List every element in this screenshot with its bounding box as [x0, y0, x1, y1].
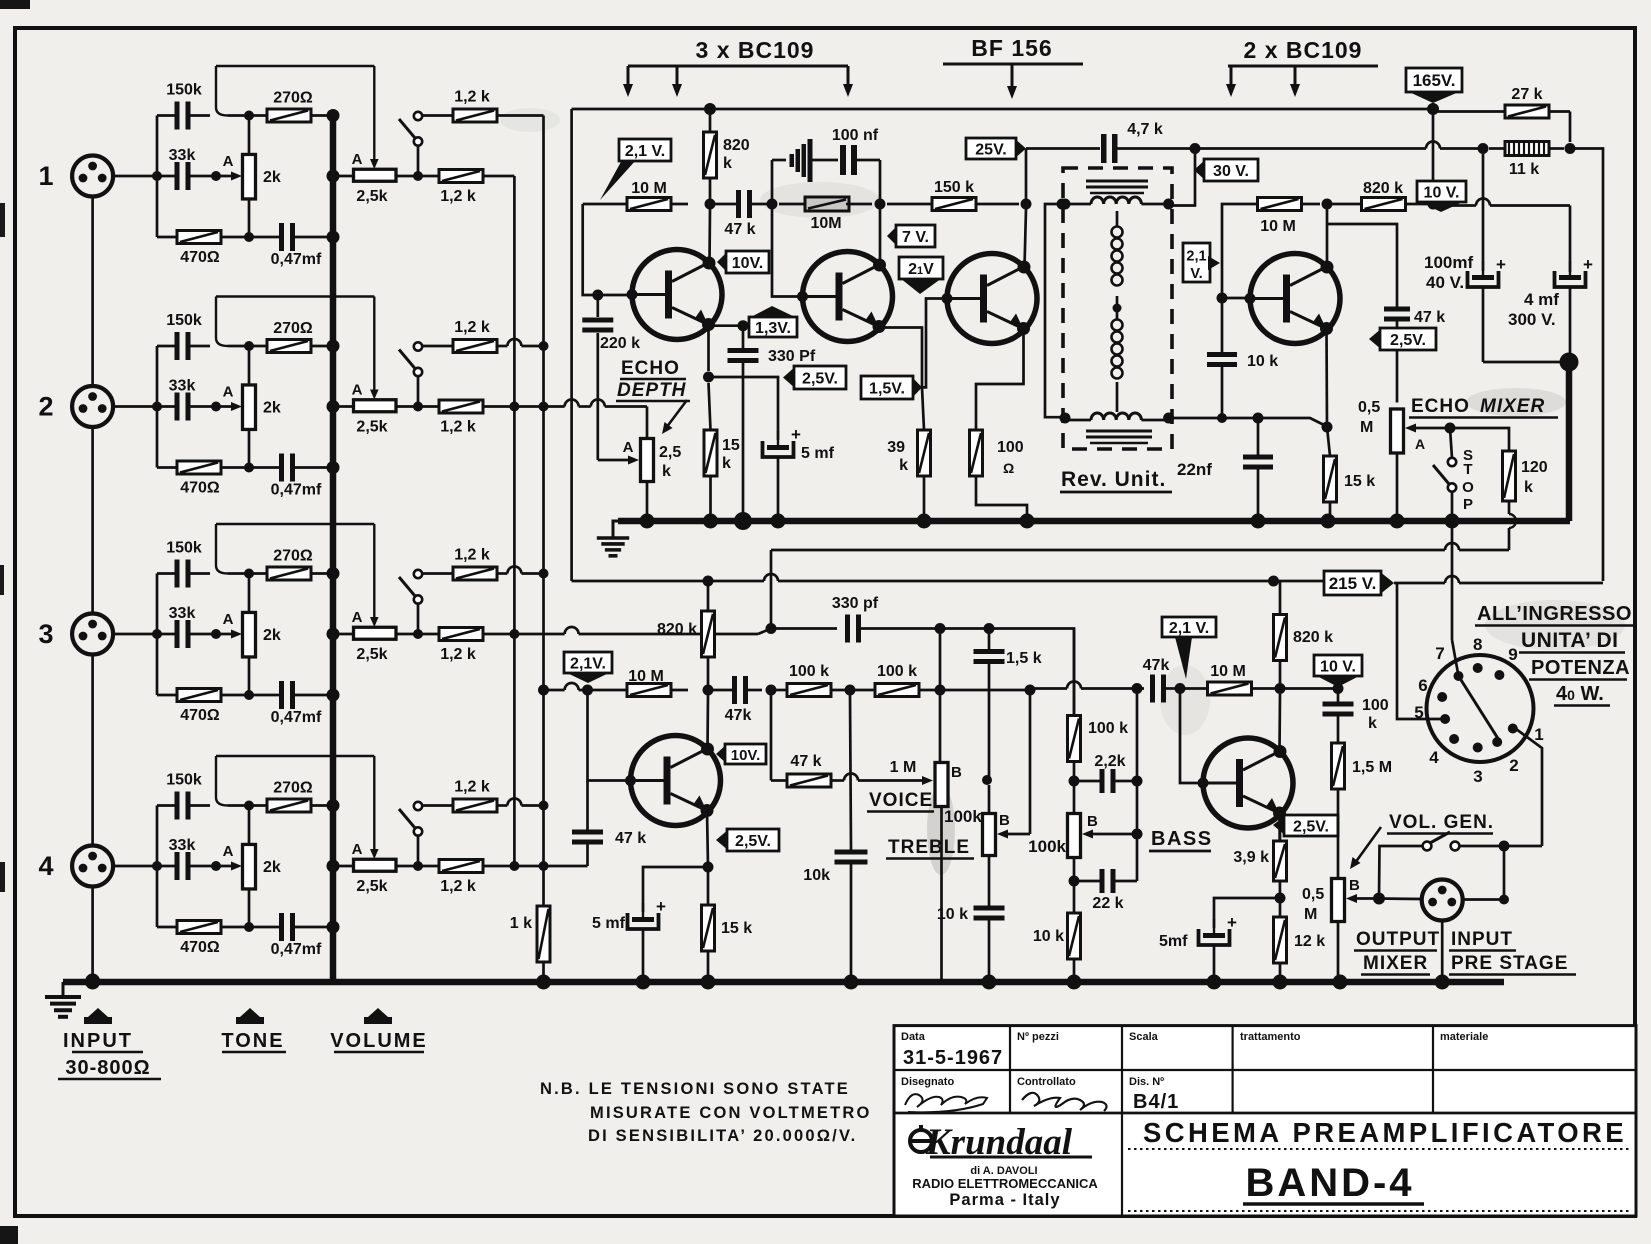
svg-text:10 M: 10 M	[631, 180, 667, 197]
wire caps common	[1483, 361, 1563, 364]
callout 2,1V tone	[564, 652, 612, 673]
svg-text:820 k: 820 k	[1293, 629, 1333, 646]
capacitor 22nf	[1243, 455, 1273, 460]
reverb unit dashed box	[1063, 168, 1172, 449]
svg-text:47 k: 47 k	[724, 221, 755, 238]
potentiometer 2k channel 3	[243, 612, 256, 657]
svg-text:1,2 k: 1,2 k	[454, 89, 490, 106]
svg-text:A: A	[223, 843, 234, 860]
svg-text:Nº pezzi: Nº pezzi	[1017, 1031, 1059, 1043]
svg-text:ECHO: ECHO	[1411, 396, 1470, 417]
callout 2,5V echo mixer	[1369, 328, 1382, 350]
svg-text:470Ω: 470Ω	[180, 249, 220, 266]
wire ch4 lower row	[483, 865, 544, 868]
svg-text:4 mf: 4 mf	[1524, 290, 1559, 309]
svg-text:BAND-4: BAND-4	[1245, 1161, 1414, 1205]
wire ch3 lower row to tone caps	[483, 633, 565, 636]
capacitor 33k channel 2	[175, 393, 180, 421]
feedback bracket channel 1	[216, 65, 374, 67]
svg-text:9: 9	[1508, 645, 1517, 664]
socket pin 1	[1508, 724, 1518, 734]
svg-text:OUTPUT: OUTPUT	[1356, 929, 1440, 950]
svg-text:820: 820	[723, 137, 750, 154]
stop switch	[1448, 458, 1456, 466]
svg-text:P: P	[1463, 496, 1473, 513]
resistor 1,2k lower channel 2	[439, 400, 483, 413]
svg-text:10 k: 10 k	[937, 906, 968, 923]
svg-text:47 k: 47 k	[1414, 309, 1445, 326]
wire J3 to node	[114, 633, 158, 636]
node channel 3 switch junction	[413, 629, 423, 639]
wiper arrow 2k channel 2	[216, 405, 233, 408]
pointer VOLUME	[364, 1008, 392, 1024]
svg-text:B: B	[1349, 877, 1360, 894]
node 11k right	[1565, 143, 1576, 154]
socket pin 6	[1437, 692, 1447, 702]
svg-text:6: 6	[1418, 676, 1427, 695]
resistor 1,2k lower channel 4	[439, 860, 483, 873]
reverb spring coil lower	[1112, 320, 1123, 331]
node channel 1 2k wiper	[211, 171, 221, 181]
wire J2 to node	[114, 405, 158, 408]
switch channel 3	[414, 570, 422, 578]
svg-text:VOL. GEN.: VOL. GEN.	[1389, 812, 1494, 833]
krundaal logo mark	[910, 1130, 932, 1152]
svg-text:N.B. LE TENSIONI SONO STAT: N.B. LE TENSIONI SONO STATE	[540, 1080, 850, 1098]
transformer core bottom	[1086, 430, 1152, 433]
capacitor 1,5k	[974, 649, 1005, 654]
wire Q1 base feed	[583, 204, 632, 295]
wire Q2 collector up	[879, 209, 882, 265]
svg-text:k: k	[662, 463, 671, 480]
capacitor 5mf tone	[643, 867, 708, 912]
wire Q5 collector up	[706, 695, 709, 749]
wire Q2 emitter run	[879, 328, 922, 388]
svg-text:Ω: Ω	[1003, 460, 1014, 476]
callout 1,3V	[749, 317, 797, 337]
node T1 collector row	[705, 199, 716, 210]
svg-text:1,5V.: 1,5V.	[869, 381, 905, 398]
svg-text:1 M: 1 M	[890, 759, 917, 776]
capacitor 47k tone base	[572, 830, 603, 835]
potentiometer 2,5k channel 3	[354, 627, 397, 639]
wire ch3 upper row with hop	[498, 572, 508, 575]
dotted rule 1	[1128, 1148, 1632, 1150]
row bass 47k	[1030, 687, 1067, 690]
svg-text:220 k: 220 k	[600, 335, 640, 352]
resistor 1,2k upper channel 2	[453, 340, 497, 353]
capacitor 0,47mf channel 2	[279, 454, 284, 482]
svg-text:TONE: TONE	[221, 1030, 284, 1052]
node bass divider 1	[1069, 776, 1080, 787]
svg-text:5 mf: 5 mf	[592, 915, 626, 932]
title block separators	[894, 1069, 1636, 1071]
svg-text:30 V.: 30 V.	[1213, 163, 1249, 180]
svg-text:Scala: Scala	[1129, 1031, 1159, 1043]
resistor 1,2k upper channel 3	[453, 567, 497, 580]
wire ch2 upper row with hop	[498, 345, 508, 348]
resistor 470Ω channel 2	[177, 461, 221, 474]
wire Q3 collector to 4,7k row	[1025, 149, 1028, 205]
svg-text:33k: 33k	[169, 837, 196, 854]
dotted rule 2	[1128, 1210, 1632, 1212]
node channel 2 2k wiper	[211, 402, 221, 412]
resistor 120k	[1503, 451, 1516, 501]
svg-text:M: M	[1360, 419, 1373, 436]
node rev top-left	[1060, 199, 1071, 210]
svg-text:22 k: 22 k	[1092, 895, 1123, 912]
svg-text:2k: 2k	[263, 627, 281, 644]
socket pin 5	[1440, 714, 1450, 724]
svg-text:1,5 k: 1,5 k	[1006, 650, 1042, 667]
capacitor 4,7k	[1101, 134, 1107, 163]
capacitor 10k treble	[974, 906, 1005, 911]
capacitor 150k channel 3	[175, 560, 180, 588]
wire Q4 emitter down	[1325, 330, 1328, 428]
supply top line	[572, 108, 1433, 111]
svg-text:100k: 100k	[944, 807, 982, 826]
capacitor 33k channel 3	[175, 620, 180, 648]
resistor 3,9k bass	[1274, 841, 1287, 881]
potentiometer 100k treble	[983, 814, 996, 856]
potentiometer 2k channel 1	[243, 154, 256, 199]
svg-text:1,2 k: 1,2 k	[454, 319, 490, 336]
svg-text:11 k: 11 k	[1509, 161, 1539, 178]
node rev bottom-left	[1060, 413, 1071, 424]
wire rev primary loop	[1045, 204, 1065, 417]
svg-text:470Ω: 470Ω	[180, 707, 220, 724]
callout 2,1V bass	[1162, 617, 1216, 637]
feedback bracket channel 4	[216, 755, 374, 757]
capacitor 0,47mf channel 3	[279, 681, 284, 709]
wire ch4 upper row with hop	[498, 804, 508, 807]
svg-text:10 V.: 10 V.	[1320, 659, 1356, 676]
tone input row	[544, 689, 565, 692]
svg-text:BASS: BASS	[1151, 828, 1213, 850]
resistor 1,2k lower channel 3	[439, 628, 483, 641]
svg-text:5 mf: 5 mf	[801, 445, 835, 462]
node channel 3 2k wiper	[211, 629, 221, 639]
svg-text:2,1V.: 2,1V.	[570, 656, 606, 673]
svg-text:2,1 V.: 2,1 V.	[1169, 620, 1209, 637]
wiper arrow 2k channel 1	[216, 175, 233, 178]
capacitor 150k channel 1	[175, 102, 180, 130]
reverb spring coil upper	[1112, 227, 1123, 238]
svg-text:10 k: 10 k	[1247, 353, 1278, 370]
capacitor 100k bass out	[1323, 702, 1354, 707]
wiper arrow 2k channel 3	[216, 633, 233, 636]
wiper treble	[997, 830, 1008, 839]
XLR input connector J2	[72, 386, 113, 427]
svg-text:VOLUME: VOLUME	[330, 1030, 428, 1052]
svg-text:2: 2	[1509, 756, 1518, 775]
wire J1 to node	[114, 175, 158, 178]
node 100nf right	[875, 199, 886, 210]
wire Q2 base feed	[772, 209, 803, 297]
svg-text:47k: 47k	[1143, 657, 1170, 674]
switch channel 2	[414, 342, 422, 350]
wire 10M2 left stub	[779, 203, 805, 206]
resistor 100k bass top	[1068, 716, 1081, 762]
svg-text:SCHEMA PREAMPLIFICATORE: SCHEMA PREAMPLIFICATORE	[1143, 1117, 1627, 1148]
svg-text:33k: 33k	[169, 605, 196, 622]
potentiometer 2,5k channel 2	[354, 400, 397, 412]
215V supply line	[572, 580, 764, 583]
svg-text:100: 100	[997, 439, 1024, 456]
svg-text:3: 3	[1473, 767, 1482, 786]
wire bass chain right	[1136, 689, 1139, 882]
resistor 820k echo mixer	[1362, 198, 1406, 211]
svg-text:1,2 k: 1,2 k	[440, 878, 476, 895]
svg-text:330 Pf: 330 Pf	[768, 348, 816, 365]
node Q4 collector row	[1322, 199, 1333, 210]
svg-text:27 k: 27 k	[1511, 86, 1542, 103]
node T3 collector row	[1021, 199, 1032, 210]
node channel 4 switch junction	[413, 861, 423, 871]
svg-text:Disegnato: Disegnato	[901, 1076, 954, 1088]
capacitor 33k channel 4	[175, 852, 180, 880]
arrow BF156	[1011, 64, 1014, 88]
main ground rail	[63, 979, 1504, 986]
svg-text:3 x BC109: 3 x BC109	[696, 37, 815, 63]
svg-text:trattamento: trattamento	[1240, 1031, 1301, 1043]
svg-text:120: 120	[1521, 459, 1548, 476]
wire Q1 emitter down	[707, 329, 710, 371]
callout 2,5V echo	[783, 366, 796, 389]
svg-text:100mf: 100mf	[1424, 253, 1473, 272]
wire 270 left stub channel 1	[249, 114, 267, 117]
node channel 3 470-0.47 junction	[244, 690, 254, 700]
switch channel 1	[414, 112, 422, 120]
capacitor 5mf bass	[1214, 898, 1280, 928]
wire 11k to right drop	[1570, 149, 1603, 582]
resistor 1,2k upper channel 4	[453, 799, 497, 812]
resistor 820k echo T1 load	[704, 132, 717, 178]
vol gen switch right wire	[1459, 845, 1542, 848]
wire Q1 emitter to 5mf	[709, 377, 779, 440]
resistor 820k tone	[702, 611, 715, 657]
wire to XLR output	[1503, 846, 1506, 900]
svg-text:4: 4	[38, 851, 53, 881]
node 47k tone out	[766, 685, 777, 696]
svg-text:1 k: 1 k	[510, 915, 532, 932]
potentiometer 1M voice	[935, 763, 948, 807]
socket internal link	[1459, 676, 1499, 739]
resistor 820k bass	[1274, 615, 1287, 661]
wire Q6 collector up	[1278, 694, 1281, 752]
capacitor 10k tone	[835, 850, 868, 855]
XLR input connector J1	[72, 156, 113, 197]
node channel 4 470-0.47 junction	[244, 922, 254, 932]
svg-text:300 V.: 300 V.	[1508, 310, 1556, 329]
power socket circle	[1427, 655, 1534, 762]
svg-text:10M: 10M	[810, 215, 841, 232]
svg-text:1: 1	[38, 161, 53, 191]
capacitor 33k channel 1	[175, 162, 180, 190]
wiper arrow 2k channel 4	[216, 865, 233, 868]
svg-text:2,5: 2,5	[659, 444, 681, 461]
wire voice top	[939, 629, 942, 691]
svg-text:INPUT: INPUT	[1451, 929, 1513, 950]
ground symbol echo rail	[613, 521, 618, 537]
svg-text:A: A	[352, 841, 363, 858]
wire rev return to emitter	[1169, 418, 1328, 427]
wire Q5 emitter down	[707, 811, 708, 868]
svg-text:A: A	[352, 382, 363, 399]
wire stop down to socket pin7	[1451, 521, 1454, 640]
callout 10V echo mixer	[1417, 181, 1466, 202]
svg-text:2,1: 2,1	[1186, 249, 1206, 265]
svg-text:820 k: 820 k	[657, 621, 697, 638]
potentiometer 2k channel 4	[243, 844, 256, 889]
svg-text:25V.: 25V.	[975, 142, 1006, 159]
transistor Q3 BF156	[947, 254, 1037, 344]
title block frame	[894, 1026, 1636, 1216]
row 100k 100k	[771, 689, 787, 692]
callout 7V	[887, 225, 898, 247]
svg-text:150k: 150k	[166, 540, 202, 557]
svg-text:15 k: 15 k	[1344, 473, 1375, 490]
resistor 15k echo	[704, 430, 717, 476]
svg-text:O: O	[1462, 479, 1474, 496]
svg-text:47 k: 47 k	[790, 753, 821, 770]
resistor 1k	[537, 906, 550, 962]
svg-text:5: 5	[1414, 703, 1423, 722]
echo-send bus vertical x=543	[542, 116, 545, 907]
svg-text:47k: 47k	[725, 707, 752, 724]
transistor Q2 BC109	[803, 252, 893, 342]
svg-text:8: 8	[1473, 635, 1482, 654]
resistor 270Ω channel 3	[267, 567, 311, 580]
wire Q3 base feed	[922, 299, 947, 388]
svg-text:15: 15	[722, 437, 740, 454]
svg-text:2,5V.: 2,5V.	[1293, 819, 1329, 836]
svg-text:820 k: 820 k	[1363, 180, 1403, 197]
svg-text:215 V.: 215 V.	[1329, 574, 1377, 593]
svg-text:270Ω: 270Ω	[273, 780, 313, 797]
echo return line	[771, 549, 1445, 552]
node channel 3 volume bus taps	[327, 567, 340, 580]
resistor 15k echo mixer	[1324, 456, 1337, 502]
svg-text:470Ω: 470Ω	[180, 480, 220, 497]
node rev bottom-right	[1163, 413, 1174, 424]
transformer coil bottom	[1091, 413, 1141, 420]
svg-text:2,2k: 2,2k	[1094, 753, 1125, 770]
svg-text:MIXER: MIXER	[1363, 953, 1428, 974]
wire channel 4 branch vertical	[156, 806, 159, 928]
node rev top-right	[1163, 199, 1174, 210]
svg-text:A: A	[623, 439, 634, 456]
callout 10V bass	[1314, 655, 1362, 676]
wire Q4 collector up	[1326, 209, 1329, 267]
resistor 10M second	[805, 197, 849, 211]
svg-text:V.: V.	[1190, 266, 1202, 282]
svg-text:470Ω: 470Ω	[180, 939, 220, 956]
node channel 3 pot top	[244, 569, 254, 579]
node channel 4 2k wiper	[211, 861, 221, 871]
potentiometer 100k bass	[1068, 814, 1081, 858]
callout 30V	[1194, 159, 1206, 181]
svg-text:150 k: 150 k	[934, 179, 974, 196]
svg-text:k: k	[899, 457, 908, 474]
resistor 47k voice	[770, 690, 773, 781]
socket pin 4	[1449, 734, 1459, 744]
resistor 270Ω channel 4	[267, 799, 311, 812]
svg-text:10 M: 10 M	[1260, 218, 1296, 235]
svg-text:270Ω: 270Ω	[273, 548, 313, 565]
resistor 1,2k upper channel 1	[453, 109, 497, 122]
svg-text:A: A	[352, 151, 363, 168]
svg-text:3: 3	[38, 619, 53, 649]
callout 165V	[1406, 68, 1462, 92]
wire echo mixer base feed	[1222, 204, 1250, 298]
capacitor 220k	[582, 318, 613, 323]
215V line right segment	[1394, 582, 1445, 585]
svg-text:100k: 100k	[1028, 837, 1066, 856]
capacitor 150k channel 2	[175, 332, 180, 360]
svg-text:Parma - Italy: Parma - Italy	[949, 1191, 1060, 1209]
svg-text:7: 7	[1435, 644, 1444, 663]
bracket 2 x BC109	[1228, 65, 1378, 68]
capacitor 2,2k	[1100, 769, 1105, 793]
svg-text:DEPTH: DEPTH	[617, 380, 687, 401]
row bass collector	[1280, 687, 1338, 690]
svg-text:MISURATE CON VOLTMETRO: MISURATE CON VOLTMETRO	[590, 1104, 872, 1122]
svg-text:Rev. Unit.: Rev. Unit.	[1061, 468, 1166, 491]
svg-text:A: A	[223, 153, 234, 170]
feedback bracket channel 2	[216, 295, 374, 297]
svg-text:3,9 k: 3,9 k	[1233, 849, 1269, 866]
svg-text:2 x BC109: 2 x BC109	[1244, 37, 1363, 63]
wire XLR output ground	[1441, 921, 1444, 983]
svg-text:10 M: 10 M	[1210, 663, 1246, 680]
svg-text:1: 1	[1534, 725, 1543, 744]
node channel 2 volume bus taps	[327, 340, 340, 353]
svg-text:TREBLE: TREBLE	[888, 837, 970, 858]
node reverb middle	[1113, 304, 1122, 313]
capacitor 100nf bypass	[771, 160, 774, 204]
resistor 15k tone	[702, 905, 715, 951]
resistor 10k bass	[1068, 913, 1081, 959]
wire 270 left stub channel 2	[249, 345, 267, 348]
signature disegnato	[905, 1094, 987, 1112]
svg-text:0,47mf: 0,47mf	[271, 941, 322, 958]
capacitor 47k bass	[1150, 675, 1155, 703]
pointer TONE	[236, 1008, 264, 1024]
svg-text:150k: 150k	[166, 772, 202, 789]
svg-text:39: 39	[887, 439, 905, 456]
wire channel 3 branch vertical	[156, 574, 159, 696]
wire ch2 lower row to echo depth	[483, 405, 565, 408]
resistor 1,2k lower channel 1	[439, 170, 483, 183]
potentiometer 2,5k channel 1	[354, 169, 397, 181]
callout 2,5V tone	[716, 829, 729, 851]
resistor 11k hatched	[1505, 142, 1549, 156]
svg-text:UNITA’ DI: UNITA’ DI	[1521, 629, 1618, 652]
svg-text:150k: 150k	[166, 312, 202, 329]
bracket 3 x BC109	[628, 65, 848, 68]
XLR input connector J3	[72, 614, 113, 655]
resistor 10M echo mixer	[1258, 198, 1302, 211]
capacitor 10k echo	[1207, 352, 1237, 357]
svg-text:B: B	[1087, 813, 1098, 830]
capacitor 22k	[1100, 869, 1105, 893]
wire tone base drop	[588, 690, 631, 781]
row bass top	[1073, 629, 1076, 716]
svg-text:VOICE: VOICE	[869, 790, 933, 811]
direct bus vertical x=514	[513, 176, 516, 866]
svg-text:A: A	[352, 609, 363, 626]
